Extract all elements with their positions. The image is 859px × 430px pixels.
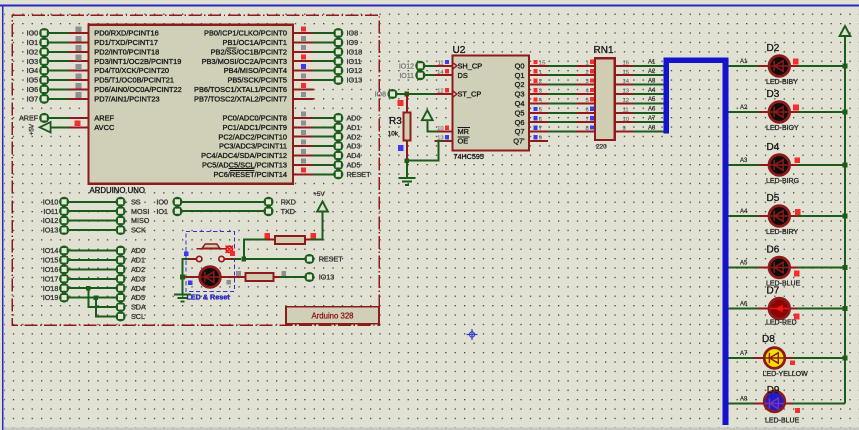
- wire IO4 to PD4: [49, 70, 69, 72]
- pin RN1.6 state box: [590, 107, 594, 111]
- shift register U2 body: [453, 56, 530, 151]
- svg-text:Q5: Q5: [515, 108, 525, 117]
- led D1: [200, 267, 221, 288]
- led D1 lead right: [221, 276, 246, 278]
- window bottom strip: [4, 428, 859, 430]
- pin U2.SH_CP state box: [445, 60, 449, 64]
- svg-text:D4: D4: [767, 142, 780, 153]
- pin PB0 state box: [301, 26, 306, 31]
- wire IO12 to MISO: [69, 220, 116, 222]
- svg-text:AD3: AD3: [347, 142, 361, 151]
- resistor network RN1 body: [595, 58, 615, 140]
- terminal SS node: [117, 198, 125, 206]
- svg-text:A3: A3: [740, 158, 748, 164]
- pin PD1 state box: [76, 36, 82, 42]
- terminal IO14: [60, 247, 68, 255]
- resistor R3 lead bottom: [406, 141, 408, 161]
- svg-text:A5: A5: [740, 261, 748, 267]
- svg-text:IO0: IO0: [27, 29, 39, 38]
- pin U2.Q4 state box: [533, 97, 537, 101]
- wire IO2 to PD2: [49, 51, 69, 53]
- svg-text:SDA: SDA: [131, 303, 146, 312]
- svg-text:12: 12: [437, 89, 444, 95]
- wire PC4 to AD4: [313, 155, 334, 157]
- svg-text:D2: D2: [767, 43, 780, 54]
- svg-text:IO18: IO18: [43, 284, 59, 293]
- probe square D4: [794, 157, 800, 163]
- wire IO7 to PD7: [49, 98, 69, 100]
- led D8 lead left: [753, 357, 764, 359]
- wire RN1.14 to bus: [634, 84, 665, 86]
- svg-text:D7: D7: [767, 286, 780, 297]
- wire IO11 to MOSI: [69, 210, 116, 212]
- probe square R3 top: [398, 100, 404, 106]
- wire D8 to +5V rail: [793, 357, 845, 359]
- terminal MISO node: [117, 217, 125, 225]
- terminal IO8: [334, 29, 342, 37]
- pin RN1.5 state box: [590, 97, 594, 101]
- svg-text:Q1: Q1: [515, 71, 525, 80]
- terminal IO18: [60, 284, 68, 292]
- svg-text:11: 11: [438, 60, 444, 66]
- wire IO1 to PD1: [49, 41, 69, 43]
- led D8 lead right: [785, 357, 793, 359]
- terminal IO13: [334, 76, 342, 84]
- wire PC5 to AD5: [313, 164, 334, 166]
- svg-text:IO12: IO12: [399, 63, 414, 70]
- svg-text:9: 9: [539, 136, 542, 142]
- wire IO3 to PD3: [49, 60, 69, 62]
- svg-text:A4: A4: [740, 209, 748, 215]
- wire IO11 to DS: [425, 74, 435, 76]
- svg-text:PB5/SCK/PCINT5: PB5/SCK/PCINT5: [227, 76, 287, 85]
- junction IO18/SDA: [86, 286, 91, 291]
- terminal AD0 node: [117, 247, 125, 255]
- pin U2.DS stub: [435, 74, 453, 76]
- resistor R1 body: [275, 236, 305, 244]
- pin PC4 state box: [301, 149, 306, 154]
- svg-text:R3: R3: [389, 116, 402, 127]
- svg-text:9: 9: [623, 126, 626, 132]
- wire AREF: [49, 117, 69, 119]
- svg-text:MISO: MISO: [131, 216, 150, 225]
- svg-text:A5: A5: [648, 97, 656, 103]
- overline PB2 SS: [227, 47, 237, 49]
- pin PD0 stub: [69, 32, 89, 34]
- pin PD4 state box: [76, 64, 82, 70]
- pin RN1.13 stub: [615, 93, 634, 95]
- pin PB3 state box: [301, 55, 306, 60]
- pin PD3 state box: [76, 55, 82, 61]
- probe square R1 right: [310, 233, 315, 238]
- pin PD5 stub: [69, 79, 89, 81]
- led D7 lead right: [790, 308, 798, 310]
- svg-text:12: 12: [623, 98, 630, 104]
- wire PB0 to IO8: [313, 32, 334, 34]
- svg-text:IO9: IO9: [347, 38, 359, 47]
- terminal IO12 node2: [416, 62, 424, 70]
- wire AVCC: [51, 126, 69, 128]
- wire IO6 to PD6: [49, 88, 69, 90]
- sheet border blue top: [0, 5, 859, 7]
- svg-text:1: 1: [539, 70, 542, 76]
- wire RN1.9 to bus: [634, 131, 665, 133]
- pin PC0 stub: [293, 117, 313, 119]
- terminal IO9: [334, 38, 342, 46]
- svg-text:10k: 10k: [388, 130, 399, 137]
- wire bus tap A8: [728, 403, 754, 405]
- svg-text:ST_CP: ST_CP: [458, 90, 482, 99]
- wire +5V rail vertical: [844, 38, 846, 404]
- probe square D8: [790, 360, 795, 365]
- svg-text:IO16: IO16: [43, 265, 59, 274]
- pin RN1.1 stub: [576, 65, 595, 67]
- wire reset node to RESET: [244, 258, 305, 260]
- svg-text:13: 13: [623, 89, 630, 95]
- junction gnd node: [180, 275, 185, 280]
- svg-text:OE: OE: [458, 137, 469, 146]
- pin U2.Q3 stub: [529, 93, 548, 95]
- pin PD6 state box: [76, 83, 82, 89]
- wire IO18 to AD4: [69, 287, 116, 289]
- pin U2.Q1 stub: [529, 74, 548, 76]
- pin U2.Q4 stub: [529, 102, 548, 104]
- pin U2.DS state box: [445, 69, 449, 73]
- pin RN1.10 stub: [615, 121, 634, 123]
- pin RN1.14 stub: [615, 84, 634, 86]
- svg-text:PD6/AIN0/OC0A/PCINT22: PD6/AIN0/OC0A/PCINT22: [94, 85, 182, 94]
- sim square R2 left: [236, 271, 241, 276]
- svg-text:A2: A2: [740, 105, 748, 111]
- junction rail D4: [843, 163, 848, 168]
- svg-text:ARDUINO UNO: ARDUINO UNO: [90, 186, 145, 195]
- terminal IO12: [60, 217, 68, 225]
- button stub right: [224, 258, 233, 260]
- pin U2.Q0 stub: [529, 65, 548, 67]
- svg-text:PD4/T0/XCK/PCINT20: PD4/T0/XCK/PCINT20: [94, 66, 169, 75]
- wire IO1 to TXD: [182, 210, 264, 212]
- junction rail D8: [843, 356, 848, 361]
- svg-text:D8: D8: [762, 334, 775, 345]
- led D9 lead left: [753, 403, 764, 405]
- pin RN1.9 stub: [615, 131, 634, 133]
- pin PD4 stub: [69, 70, 89, 72]
- wire U2.Q6 to RN1: [548, 121, 576, 123]
- wire PC6 to RESET: [313, 173, 334, 175]
- led D1 lead left: [185, 276, 200, 278]
- pin PD1 stub: [69, 41, 89, 43]
- svg-text:AD3: AD3: [131, 274, 145, 283]
- terminal IO6: [40, 85, 48, 93]
- sim square D1 right: [226, 280, 231, 285]
- pin PB4 stub: [293, 70, 313, 72]
- pin PB1 state box: [301, 36, 306, 41]
- svg-text:+5V: +5V: [28, 123, 35, 135]
- pin PB4 state box: [301, 64, 306, 69]
- svg-text:IO15: IO15: [43, 256, 59, 265]
- svg-text:PC2/ADC2/PCINT10: PC2/ADC2/PCINT10: [218, 132, 287, 141]
- junction IO8/R3: [405, 92, 410, 97]
- svg-text:LED-BLUE: LED-BLUE: [765, 418, 800, 425]
- pin U2.Q0 state box: [533, 60, 537, 64]
- svg-text:A1: A1: [648, 60, 656, 66]
- svg-text:IO10: IO10: [43, 197, 59, 206]
- pin PC3 stub: [293, 145, 313, 147]
- terminal IO0 node2: [173, 198, 181, 206]
- wire +5V to MR: [427, 122, 437, 132]
- svg-text:Q7': Q7': [513, 137, 525, 146]
- pin U2.SH_CP stub: [435, 65, 453, 67]
- wire RN1.15 to bus: [634, 74, 665, 76]
- svg-text:IO19: IO19: [43, 293, 59, 302]
- pin PC6 state box: [301, 168, 306, 173]
- led D5: [769, 206, 790, 227]
- svg-text:SCL: SCL: [131, 312, 145, 321]
- svg-text:DS: DS: [458, 71, 468, 80]
- led D6 lead left: [758, 267, 769, 269]
- pin PD6 stub: [69, 88, 89, 90]
- wire D2 to +5V rail: [798, 65, 846, 67]
- wire R1 to reset node: [244, 240, 266, 260]
- overline U2 MR: [457, 126, 470, 128]
- led D3 lead left: [758, 111, 769, 113]
- led D4 lead left: [758, 164, 769, 166]
- pin U2.SH_CP clock chevron: [453, 62, 457, 69]
- terminal AD2 node: [117, 265, 125, 273]
- button stub left: [189, 258, 197, 260]
- terminal IO10: [60, 198, 68, 206]
- button pin left: [197, 256, 202, 261]
- svg-text:A4: A4: [648, 88, 656, 94]
- terminal AD3 node: [117, 275, 125, 283]
- pin PD3 stub: [69, 60, 89, 62]
- svg-text:PC3/ADC3/PCINT11: PC3/ADC3/PCINT11: [219, 142, 287, 151]
- wire D4 to +5V rail: [798, 164, 846, 166]
- wire D7 to +5V rail: [798, 308, 846, 310]
- svg-text:IO17: IO17: [43, 274, 59, 283]
- wire IO0 to PD0: [49, 32, 69, 34]
- pin RN1.2 stub: [576, 74, 595, 76]
- pin RN1.5 stub: [576, 102, 595, 104]
- wire R2 to IO13: [280, 276, 305, 278]
- led D4 lead right: [790, 164, 798, 166]
- pin PD2 state box: [76, 45, 82, 51]
- wire IO0 to RXD: [182, 201, 264, 203]
- pin PC5 state box: [301, 158, 306, 163]
- origin marker: [467, 329, 478, 340]
- svg-text:PD7/AIN1/PCINT23: PD7/AIN1/PCINT23: [94, 94, 159, 103]
- svg-text:RESET: RESET: [347, 170, 372, 179]
- pin RN1.3 stub: [576, 84, 595, 86]
- svg-text:1: 1: [586, 60, 589, 66]
- svg-text:PB1/OC1A/PCINT1: PB1/OC1A/PCINT1: [223, 38, 287, 47]
- led D5 lead right: [790, 215, 798, 217]
- junction rail D6: [843, 265, 848, 270]
- junction R3/OE: [405, 158, 410, 163]
- terminal TXD: [264, 207, 272, 215]
- sheet border blue left: [2, 6, 4, 430]
- pin PB6 state box: [301, 83, 306, 88]
- svg-text:Arduino 328: Arduino 328: [311, 311, 353, 320]
- terminal SCL: [117, 312, 125, 320]
- pin PC3 state box: [301, 140, 306, 145]
- svg-text:RXD: RXD: [281, 197, 296, 206]
- pin RN1.4 stub: [576, 93, 595, 95]
- resistor R1 lead right: [305, 239, 311, 241]
- svg-text:AVCC: AVCC: [94, 123, 115, 132]
- svg-text:LED & Reset: LED & Reset: [187, 293, 231, 302]
- svg-text:PC4/ADC4/SDA/PCINT12: PC4/ADC4/SDA/PCINT12: [201, 151, 287, 160]
- svg-text:SCK: SCK: [131, 226, 146, 235]
- wire U2.Q4 to RN1: [548, 102, 576, 104]
- svg-text:IO0: IO0: [156, 197, 168, 206]
- probe square R3 bottom: [398, 145, 404, 151]
- junction reset node: [242, 257, 247, 262]
- svg-text:LED-BIBY: LED-BIBY: [766, 79, 798, 86]
- terminal SCK node: [117, 226, 125, 234]
- wire PB1 to IO9: [313, 41, 334, 43]
- pin PC2 state box: [301, 130, 306, 135]
- terminal IO4: [40, 67, 48, 75]
- led D9 lead right: [785, 403, 793, 405]
- pin PB7 stub: [293, 98, 314, 100]
- svg-text:IO5: IO5: [27, 76, 39, 85]
- led D5 lead left: [758, 215, 769, 217]
- wire IO19 to SCL: [96, 298, 116, 317]
- svg-text:D3: D3: [767, 89, 780, 100]
- svg-text:+5V: +5V: [313, 191, 325, 198]
- svg-text:SH_CP: SH_CP: [458, 61, 483, 70]
- wire IO14 to AD0: [69, 250, 116, 252]
- svg-text:AD4: AD4: [131, 284, 145, 293]
- svg-text:LED-BIRG: LED-BIRG: [766, 178, 799, 185]
- svg-text:AD0: AD0: [347, 114, 361, 123]
- svg-text:IO13: IO13: [319, 273, 335, 282]
- junction rail D7: [843, 306, 848, 311]
- button press marker: [226, 246, 233, 253]
- svg-text:U2: U2: [453, 45, 466, 56]
- svg-text:10: 10: [623, 117, 630, 123]
- led D9: [764, 391, 785, 412]
- svg-text:PB4/MISO/PCINT4: PB4/MISO/PCINT4: [224, 66, 287, 75]
- led D4: [769, 155, 790, 176]
- terminal IO13 node2: [305, 273, 313, 281]
- svg-text:IO1: IO1: [27, 38, 39, 47]
- wire D9 to +5V rail: [793, 403, 845, 405]
- resistor R2 lead right: [273, 276, 280, 278]
- terminal IO1: [40, 38, 48, 46]
- led D6: [769, 257, 790, 278]
- terminal AD3: [334, 142, 342, 150]
- probe square D9: [795, 408, 800, 413]
- svg-text:PB2/SS/OC1B/PCINT2: PB2/SS/OC1B/PCINT2: [211, 47, 287, 56]
- wire bus tap A6: [728, 308, 758, 310]
- svg-text:LED-RED: LED-RED: [766, 320, 797, 327]
- wire button left down: [183, 259, 189, 277]
- svg-text:Q7: Q7: [515, 127, 525, 136]
- pin U2.ST_CP stub: [435, 93, 453, 95]
- pin U2.Q7' stub: [529, 140, 548, 142]
- pin RN1.6 stub: [576, 112, 595, 114]
- terminal IO15: [60, 256, 68, 264]
- pin U2.OE stub: [435, 140, 453, 142]
- svg-text:AD0: AD0: [131, 246, 145, 255]
- wire bus tap A1: [728, 65, 758, 67]
- wire RN1.10 to bus: [634, 121, 665, 123]
- button actuator bar: [197, 248, 226, 250]
- terminal AD0: [334, 114, 342, 122]
- svg-text:Q2: Q2: [515, 80, 525, 89]
- svg-text:LED-BIRY: LED-BIRY: [766, 229, 798, 236]
- svg-text:IO7: IO7: [27, 94, 39, 103]
- pin PB2 state box: [301, 45, 306, 50]
- terminal AD4 node: [117, 284, 125, 292]
- wire RN1.11 to bus: [634, 112, 665, 114]
- svg-text:IO4: IO4: [27, 66, 39, 75]
- svg-text:LED-YELLOW: LED-YELLOW: [763, 371, 809, 378]
- pin U2.Q2 state box: [533, 79, 537, 83]
- wire PB4 to IO12: [313, 70, 334, 72]
- wire IO17 to AD3: [69, 278, 116, 280]
- svg-text:PB0/ICP1/CLKO/PCINT0: PB0/ICP1/CLKO/PCINT0: [204, 29, 287, 38]
- wire U2.Q2 to RN1: [548, 84, 576, 86]
- terminal AD2: [334, 133, 342, 141]
- svg-text:PD0/RXD/PCINT16: PD0/RXD/PCINT16: [94, 29, 158, 38]
- terminal IO18: [334, 48, 342, 56]
- junction IO19/SCL: [94, 295, 99, 300]
- wire RN1.13 to bus: [634, 93, 665, 95]
- svg-text:Q6: Q6: [515, 118, 525, 127]
- wire PC3 to AD3: [313, 145, 334, 147]
- wire IO16 to AD2: [69, 268, 116, 270]
- power +5V arrow AVCC: [40, 122, 51, 132]
- pin RN1.8 stub: [576, 131, 595, 133]
- svg-text:PB6/TOSC1/XTAL1/PCINT6: PB6/TOSC1/XTAL1/PCINT6: [194, 85, 287, 94]
- resistor R3 body: [403, 113, 410, 141]
- led D7: [769, 298, 790, 319]
- svg-text:PC6/RESET/PCINT14: PC6/RESET/PCINT14: [213, 170, 287, 179]
- pin U2.OE state box: [445, 135, 449, 139]
- wire IO12 to SH_CP: [425, 65, 435, 67]
- pin U2.Q3 state box: [533, 88, 537, 92]
- bus A[1..8]: [666, 60, 725, 425]
- terminal RXD: [264, 198, 272, 206]
- terminal AREF: [40, 114, 48, 122]
- svg-text:IO1: IO1: [156, 207, 168, 216]
- svg-text:MOSI: MOSI: [131, 207, 149, 216]
- probe square D3: [793, 105, 799, 111]
- wire IO8 to ST_CP: [397, 93, 435, 95]
- svg-text:7: 7: [539, 126, 542, 132]
- wire PB2 to IO18: [313, 51, 334, 53]
- terminal RESET node: [305, 255, 313, 263]
- pin RN1.3 state box: [590, 78, 594, 82]
- svg-text:D6: D6: [767, 245, 780, 256]
- svg-text:RESET: RESET: [319, 255, 344, 264]
- wire bus tap A5: [728, 267, 758, 269]
- led D2 lead right: [790, 65, 798, 67]
- pin AVCC stub: [69, 126, 89, 128]
- svg-text:Q3: Q3: [515, 90, 525, 99]
- pin RN1.11 stub: [615, 112, 634, 114]
- overline PC6 RESET: [230, 169, 255, 171]
- svg-text:A6: A6: [648, 107, 656, 113]
- svg-text:16: 16: [623, 60, 630, 66]
- terminal SDA: [117, 303, 125, 311]
- terminal IO1 node2: [173, 207, 181, 215]
- terminal AD1 node: [117, 256, 125, 264]
- svg-text:D9: D9: [767, 385, 780, 396]
